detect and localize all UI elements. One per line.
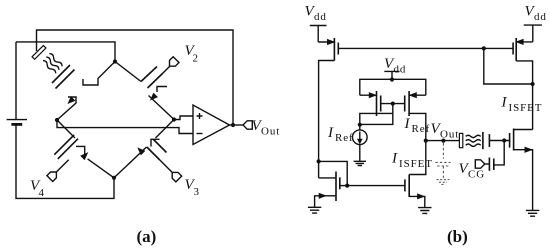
svg-text:(a): (a) (137, 227, 157, 246)
MOSFET V3-device drain bracket (151, 139, 160, 146)
wire VCG port to capacitor (485, 163, 490, 165)
transistor M3 source lead (315, 196, 336, 208)
transistor M2 channel bar (515, 38, 517, 61)
dashed parasitic capacitor under VOut (435, 143, 450, 184)
wire M1 gate to M2 gate (338, 47, 513, 49)
port V2 (167, 57, 179, 69)
svg-text:3: 3 (194, 186, 200, 198)
node M2 drain (531, 82, 535, 86)
wire M5 gate to M6 gate (381, 103, 405, 105)
wire ISFET source lead to ground (514, 150, 533, 211)
transistor M1 source lead (318, 41, 334, 43)
port VOut (a) (243, 121, 252, 129)
wire M5 diode connection to current source (360, 104, 393, 125)
wire left rail to M4 gate (319, 161, 405, 185)
transistor M4 source arrow (417, 194, 424, 199)
ISFET U1 drain lead from top node (83, 62, 115, 86)
wire left rail upper (15, 42, 17, 120)
node right (a) (172, 117, 176, 121)
transistor M5 channel bar (376, 91, 378, 116)
transistor M3 drain lead (319, 177, 336, 179)
ISFET U1 source lead to left node (57, 97, 76, 120)
transistor M5 gate bar (380, 96, 382, 112)
wire current source to ground (359, 145, 361, 162)
current source I1 arrow (359, 132, 361, 142)
port VCG (475, 160, 485, 168)
MOSFET V4-device source lead to bottom node (88, 159, 114, 178)
svg-text:Ref: Ref (335, 132, 354, 144)
transistor M2 source lead (516, 41, 533, 43)
ground under ISFET (526, 210, 539, 216)
wire op-amp output (230, 124, 244, 126)
svg-text:ISFET: ISFET (509, 102, 543, 114)
capacitor CCG left plate (488, 158, 490, 171)
MOSFET V4-device gate plate (58, 139, 78, 159)
svg-text:ISFET: ISFET (399, 158, 433, 170)
MOSFET V4-device source bracket (76, 146, 85, 157)
wire M5/M6 source rail (360, 79, 426, 95)
node gates M5 M6 (391, 102, 395, 106)
MOSFET V2-device source lead to right node (149, 96, 175, 120)
MOSFET V3-device gate plate (147, 147, 160, 160)
transistor M5 source arrow (369, 93, 376, 98)
transistor M4 gate bar (404, 179, 406, 191)
transistor M1 channel bar (333, 38, 335, 61)
svg-text:I: I (391, 151, 398, 167)
node M2 gate wire (482, 46, 486, 50)
transistor M6 gate bar (404, 96, 406, 112)
svg-text:dd: dd (534, 11, 547, 23)
ISFET U3 insulator plate tall (482, 132, 484, 149)
wire M3 gate to node (340, 185, 347, 187)
current source I1 circle (353, 130, 368, 145)
Vdd rail stub M2 (524, 25, 542, 42)
node dashed tap (441, 139, 445, 143)
MOSFET V3-device drain lead from right node (156, 120, 175, 139)
wire capacitor to floating gate (494, 141, 504, 165)
svg-text:dd: dd (314, 11, 327, 23)
MOSFET V2-device gate lead (163, 67, 170, 74)
op-amp U2 (193, 105, 230, 145)
wire feedback from op-amp output to reference electrode (37, 30, 234, 125)
MOSFET V2-device source arrow (151, 93, 158, 100)
wire left rail lower and bottom rail (16, 124, 114, 198)
svg-text:2: 2 (193, 53, 199, 65)
transistor M2 source arrow (517, 40, 524, 45)
ISFET U1 source arrow (68, 97, 75, 104)
MOSFET V3-device channel plate (154, 140, 167, 153)
MOSFET V4-device gate lead (56, 160, 68, 172)
MOSFET V2-device channel plate (141, 67, 157, 82)
ISFET U3 reference electrode (459, 133, 462, 147)
node VOut (b) (424, 139, 428, 143)
transistor M3 gate bar (339, 177, 341, 189)
wire M4 drain up to VOut node (409, 141, 426, 175)
ISFET U3 channel bar (513, 129, 515, 151)
ISFET U3 floating gate plate (488, 134, 490, 147)
MOSFET V4-device source arrow (81, 153, 88, 160)
ISFET liquid waves (a) (48, 53, 63, 68)
transistor M1 gate bar (337, 43, 339, 55)
svg-text:CG: CG (468, 168, 485, 180)
svg-text:dd: dd (394, 64, 407, 76)
ISFET U3 gate bar (509, 133, 511, 148)
MOSFET V2-device drain lead from top node (115, 62, 141, 82)
MOSFET V3-device gate lead (160, 160, 172, 172)
svg-text:4: 4 (39, 187, 45, 199)
port V3 (169, 170, 181, 182)
transistor M6 channel bar (408, 91, 410, 116)
ground under M3 (308, 207, 321, 213)
wire M6 drain down to VOut node (409, 113, 426, 140)
transistor M4 channel bar (408, 175, 410, 198)
MOSFET V3-device source lead to bottom node (114, 147, 147, 178)
svg-text:I: I (327, 125, 334, 141)
node left (a) (55, 118, 59, 122)
ISFET U1 gate plate (52, 65, 70, 83)
MOSFET V3-device source arrow (138, 148, 145, 155)
ISFET U1 channel plate (56, 70, 75, 89)
wire VOut node to ISFET gate stack (426, 140, 459, 142)
svg-text:I: I (404, 116, 411, 132)
wire left node to op-amp - input (57, 120, 193, 134)
svg-text:Out: Out (440, 128, 459, 140)
ground under M4 (418, 208, 431, 214)
svg-text:(b): (b) (447, 227, 468, 246)
transistor M3 source arrow (319, 193, 326, 198)
wire right node to op-amp + input (174, 116, 193, 120)
MOSFET V2-device source bracket (157, 87, 167, 93)
MOSFET V2-device gate plate (148, 73, 164, 88)
transistor M2 gate bar (512, 43, 514, 55)
node bottom (a) (112, 176, 116, 180)
Vdd rail stub M1 (310, 26, 327, 43)
transistor M6 source lead (409, 94, 426, 96)
svg-text:I: I (501, 95, 508, 111)
transistor M1 source arrow (328, 40, 335, 45)
node left rail tap (317, 159, 321, 163)
transistor M3 channel bar (335, 172, 337, 202)
wire floating gate to transistor gate (489, 140, 509, 142)
MOSFET V4-device channel plate (54, 135, 74, 155)
svg-text:Ref: Ref (412, 123, 431, 135)
wire M2 drain down (516, 61, 532, 130)
node floating gate (502, 138, 506, 142)
ISFET U3 source arrow (525, 147, 532, 152)
transistor M4 source lead (409, 196, 425, 207)
ground under current source (354, 161, 366, 165)
wire M1 drain to left rail (319, 61, 335, 178)
node current source top (358, 123, 362, 127)
wire battery positive to bridge top node (16, 42, 115, 62)
wire M2 diode connection (484, 48, 533, 84)
battery B1 (7, 119, 27, 121)
port V4 (47, 169, 59, 181)
Vdd rail stub middle (384, 71, 399, 79)
node top (a) (113, 59, 117, 63)
svg-text:Out: Out (261, 126, 280, 138)
ISFET U3 liquid waves (466, 135, 481, 137)
ISFET reference electrode (a) (32, 45, 46, 59)
transistor M5 source lead (360, 94, 377, 96)
node M3 M4 gate wire (345, 184, 349, 188)
node source rail middle (390, 77, 394, 81)
wire ISFET drain lead (514, 129, 533, 131)
node op-amp output (a) (231, 123, 235, 127)
MOSFET V4-device drain lead from left node (57, 120, 75, 138)
transistor M6 source arrow (410, 93, 417, 98)
wire M5 drain to current source (360, 113, 393, 130)
capacitor CCG right plate (493, 159, 495, 171)
